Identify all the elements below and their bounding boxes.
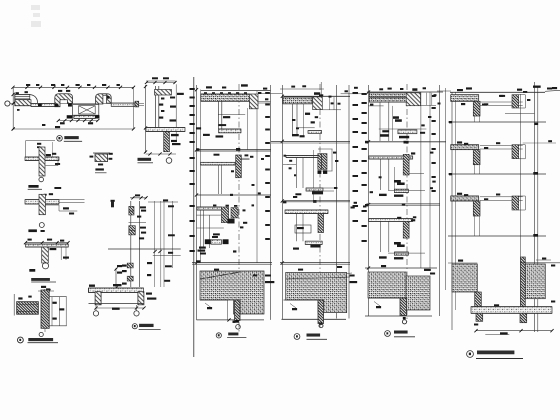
strip A level3 lines [196,214,221,216]
detail 2 mid dim marks [129,222,147,224]
detail T1 slab [25,157,59,161]
strip C level1 frame [421,104,437,106]
detail 1 top dimension line [13,86,134,88]
strip D level3 right jamb [512,196,519,210]
strip C ground hatch right [406,276,430,310]
strip B beam 1 hatched [313,97,323,110]
strip C level1 text blobs [393,116,399,119]
detail 2 top line right [148,201,178,203]
strip C footing strip hatched [400,298,407,316]
strip C ground notch [368,297,400,299]
strip D column 1 hatched [473,101,480,116]
strip B level2 frame [318,148,333,150]
detail M1 wall lines [155,86,157,128]
detail T2 axis circle [39,223,44,228]
strip A footing dot [236,320,239,323]
strip D basement left wall strip [475,292,482,307]
detail 3 axis circle [44,328,46,332]
strip D column 3 hatched [473,201,480,216]
detail T2 title specks [28,229,37,232]
strip A slab 3 [197,207,221,210]
detail B1 box [95,154,108,162]
strip D basement right lines [520,262,560,264]
strip C level2 bottom line [409,173,424,175]
strip C parapet line [367,91,443,93]
strip B eave line right [341,93,366,95]
detail M1 bottom ticks and circle [148,152,151,155]
detail 3 top dim specks [41,286,46,288]
detail T1 title [28,185,38,188]
strip A wall 3 [202,210,204,248]
strip B wall 3 [296,214,298,242]
detail T3 right dim lines [60,247,62,260]
detail 2 title [132,324,137,329]
strip B ground line [280,262,350,264]
strip C level3 text blobs [394,242,401,245]
detail 2 beam bottom dim [96,307,144,309]
strip B level1 step line [296,127,315,129]
detail M1 top hatch block [155,90,172,96]
strip B notch leader [290,304,296,309]
strip D level1 ledge lines [480,101,523,103]
detail 2 left dim vertical [115,268,117,292]
detail T1 wall strip [39,147,45,176]
strip D slab 2 [451,145,479,150]
detail 1 bottom dimension line [13,128,133,130]
strip D floor line 1 [450,91,545,93]
detail M1 lower right specks [171,134,179,136]
strip D floor line 3 [448,173,546,175]
strip D level2 right jamb [512,145,519,159]
detail 2 lower wall blocks [127,263,133,268]
detail T2 slab right band [59,199,85,201]
strip C slab 2 [369,156,413,159]
strip C slab 1 double bands [369,93,418,97]
detail 2 wall verticals [130,201,132,287]
strip B footing strip hatched [318,300,324,324]
strip D slab 1 [451,95,479,102]
strip C right verticals [420,92,422,268]
detail M1 floor slab [146,128,185,132]
strip C wall 1 [379,102,381,141]
strip D basement right wall [521,257,526,307]
strip C slab 3 [369,219,413,222]
detail 1 left wall insulation band [15,94,30,99]
detail 2 beam left hatched end [95,292,101,305]
strip C floor line 3 [366,203,440,205]
strip C bottom line [365,315,432,317]
strip D bottom text line [485,334,509,336]
strip A level3 jambs hatched [221,207,228,223]
strip D basement left block top line [448,262,477,264]
strip B column 2 black feet [318,170,322,174]
strip B grade top band [286,277,350,279]
strip B sill slab 1 [308,131,322,134]
strip C sill slab 3 [394,252,408,255]
strip B sill slab 3 [305,241,322,244]
strip C center axis dashed [406,84,408,322]
strip C ground hatch left [368,272,406,298]
strip C floor line 2 [366,141,446,143]
strip A beam 2 side lines [241,157,249,159]
strip B right verticals [336,85,338,319]
strip C sill slab 2 [394,189,408,192]
strip A beam 1 hatched [249,94,258,109]
strip A left dim vertical [196,85,198,320]
detail M1 title [138,158,152,161]
detail T3 title [29,269,35,272]
strip B wall 2 [295,158,297,189]
detail 2 beam bottom line [89,303,145,305]
strip A top dim ticks [204,92,207,93]
strip B sill slab 2 [306,188,323,191]
detail B1 text [98,164,103,166]
detail 1 left wall hatched band [15,100,31,106]
detail 2 mid hatch blocks [129,226,136,231]
strip B floor line 3 [282,199,350,201]
detail T3 top dim [26,242,69,244]
detail 1 pier 2 hatched [96,94,112,104]
strip B aux vertical [312,150,314,201]
detail T2 right step [45,204,59,206]
detail M1 left dim vertical [145,85,147,153]
detail T2 slab [25,200,59,204]
strip B level1 frame [322,109,341,111]
strip A slab 2 [201,162,236,165]
detail 1 title [57,136,63,142]
detail 2 beam axis circles [95,305,97,311]
strip D basement left hatch block [452,264,477,292]
strip A ground line [192,262,272,264]
strip D left wall verticals [451,92,453,330]
detail M1 right text specks [177,93,184,95]
strip A column 2 hatched [236,155,242,178]
strip B level2 left lines [287,164,296,166]
detail T2 top specks [54,187,61,189]
detail M1 lower hatched strip [164,132,170,152]
detail 2 beam slab stipple [89,288,144,293]
detail 1 spandrel beam left [31,103,55,106]
strip C level2 text blobs [394,180,401,183]
detail 1 central coffer with cross [73,104,99,115]
detail T1 top frame [25,141,27,161]
strip B slab 2 [286,156,318,158]
detail 2 beam specks [89,285,95,287]
detail 3 beam bar hatched [17,302,39,315]
detail T1 right specks [46,154,51,156]
detail 1 axis line [10,103,139,105]
strip D floor line 4 [448,235,546,237]
detail 1 right end dark block [135,101,139,107]
strip B wall 1 [292,104,294,136]
strip A center axis dashed [238,84,240,332]
strip A right ground specks [265,275,271,277]
strip C level1 step line [379,128,427,130]
strip A sill slab 1 [219,129,242,133]
strip A wall 2 [218,165,220,194]
strip A bottom line [197,319,265,321]
strip D basement floor slab [471,307,552,314]
strip D level2 leader [523,142,556,144]
strip B slab 3 [285,210,328,214]
strip D level1 right jamb [512,95,519,108]
strip C wall 2 [380,159,382,190]
detail 2 horizontal line b [108,248,181,250]
strip C column 2 hatched [403,154,409,175]
strip D level3 ledge lines [480,196,523,198]
strip C left dim vertical [368,85,370,316]
strip C column 3 hatched [403,221,409,238]
strip B right ground specks [350,275,355,277]
detail T3 axis circle [45,261,47,263]
strip A slab 1 [201,94,250,101]
strip D basement right hatch block [525,264,545,299]
strip C wall 3 [380,221,382,252]
detail T3 slab [26,244,69,247]
strip D column 2 hatched [473,150,480,165]
detail 2 right dim verticals [154,201,156,287]
strip A eave line [261,93,283,95]
sheet divider vertical line [193,77,195,357]
detail B1 top line [93,152,110,154]
detail 2 beam right hatched end [138,292,144,305]
detail 1 right beam [111,103,135,106]
strip B left dim vertical [281,85,283,319]
strip B level3 box [295,225,311,233]
detail 3 title [18,337,24,343]
detail 3 column hatched [41,290,49,328]
strip D level2 ledge lines [480,145,523,147]
strip B bottom line [282,318,347,320]
detail T2 right bar [111,201,114,207]
strip A level3 beam [205,239,211,244]
strip B column 2 hatched pair [318,154,322,170]
strip D top specks [457,89,463,91]
detail 1 axis circle [5,101,10,106]
strip B column 3 hatched [318,214,324,233]
strip C sill slab 1 [398,130,417,134]
strip A ground hatch [200,271,264,314]
strip A floor line 2 [197,149,272,151]
detail 1 stray specks [42,124,45,126]
detail 3 left end line [13,294,15,316]
strip A footing strip hatched [235,300,240,321]
detail T3 wall strip [42,247,49,263]
detail M1 top dim text [152,77,158,79]
detail 1 pier 1 hatched [55,94,73,107]
detail T1 axis circle [39,177,44,182]
detail 1 under dimension marks [58,120,98,122]
strip D basement dim line [476,330,552,332]
faint corner marks [31,5,41,27]
strip B ground hatch [286,273,347,313]
strip D basement stubs [476,313,483,321]
strip C beam 1 hatched [406,93,420,106]
detail T2 wall strip [39,194,45,214]
strip B ground notch [284,299,319,301]
strip B title [294,334,300,340]
strip D floor line 2 [448,121,546,123]
strip A level3 black block [227,219,234,224]
strip D right eave line [545,90,560,91]
strip D slab 3 [451,196,479,201]
strip B floor line 2 [271,141,350,143]
strip B slab 1 [283,97,312,104]
strip A wall 1 [217,101,219,129]
strip A beam side lines [258,101,271,103]
strip C title [385,331,391,337]
detail M1 right vertical [175,84,177,141]
strip A ground notch [200,299,228,301]
detail 3 right frame [49,296,66,298]
strip C level1 left line [368,105,384,107]
detail 1 coffer bottom bars [67,115,73,118]
strip D title [467,351,474,358]
strip A notch leader [205,303,211,308]
strip C eave line to D [437,90,451,92]
strip B floor line 1 [284,95,351,97]
strip B ground axis circle [319,323,322,325]
strip A title [216,333,221,338]
strip C notch leader [374,302,380,307]
detail 2 upper hatch blocks [129,206,134,211]
strip A floor line 3 [197,194,272,196]
strip A wall grid vertical [200,90,202,264]
detail T1 top specks [37,143,41,145]
strip A ground axis circle [236,325,241,330]
strip A inner verticals [256,91,258,263]
detail 2 top dim [135,194,140,196]
strip A right dim verticals [270,85,272,320]
strip C ground line [365,267,437,269]
detail 1 left dim vertical [12,87,14,129]
strip A ground line left blob [196,260,200,263]
strip D long verticals [520,94,522,310]
detail T3 right specks [50,248,57,250]
strip A level3 specks [213,233,220,235]
strip B parapet line [280,88,324,90]
strip A grade slope line [200,272,240,279]
strip A floor line 1 [201,90,271,92]
strip B floor line 3 blobs [313,200,316,203]
strip B center axis dashed [319,84,321,330]
strip C ground axis circle [403,317,406,319]
